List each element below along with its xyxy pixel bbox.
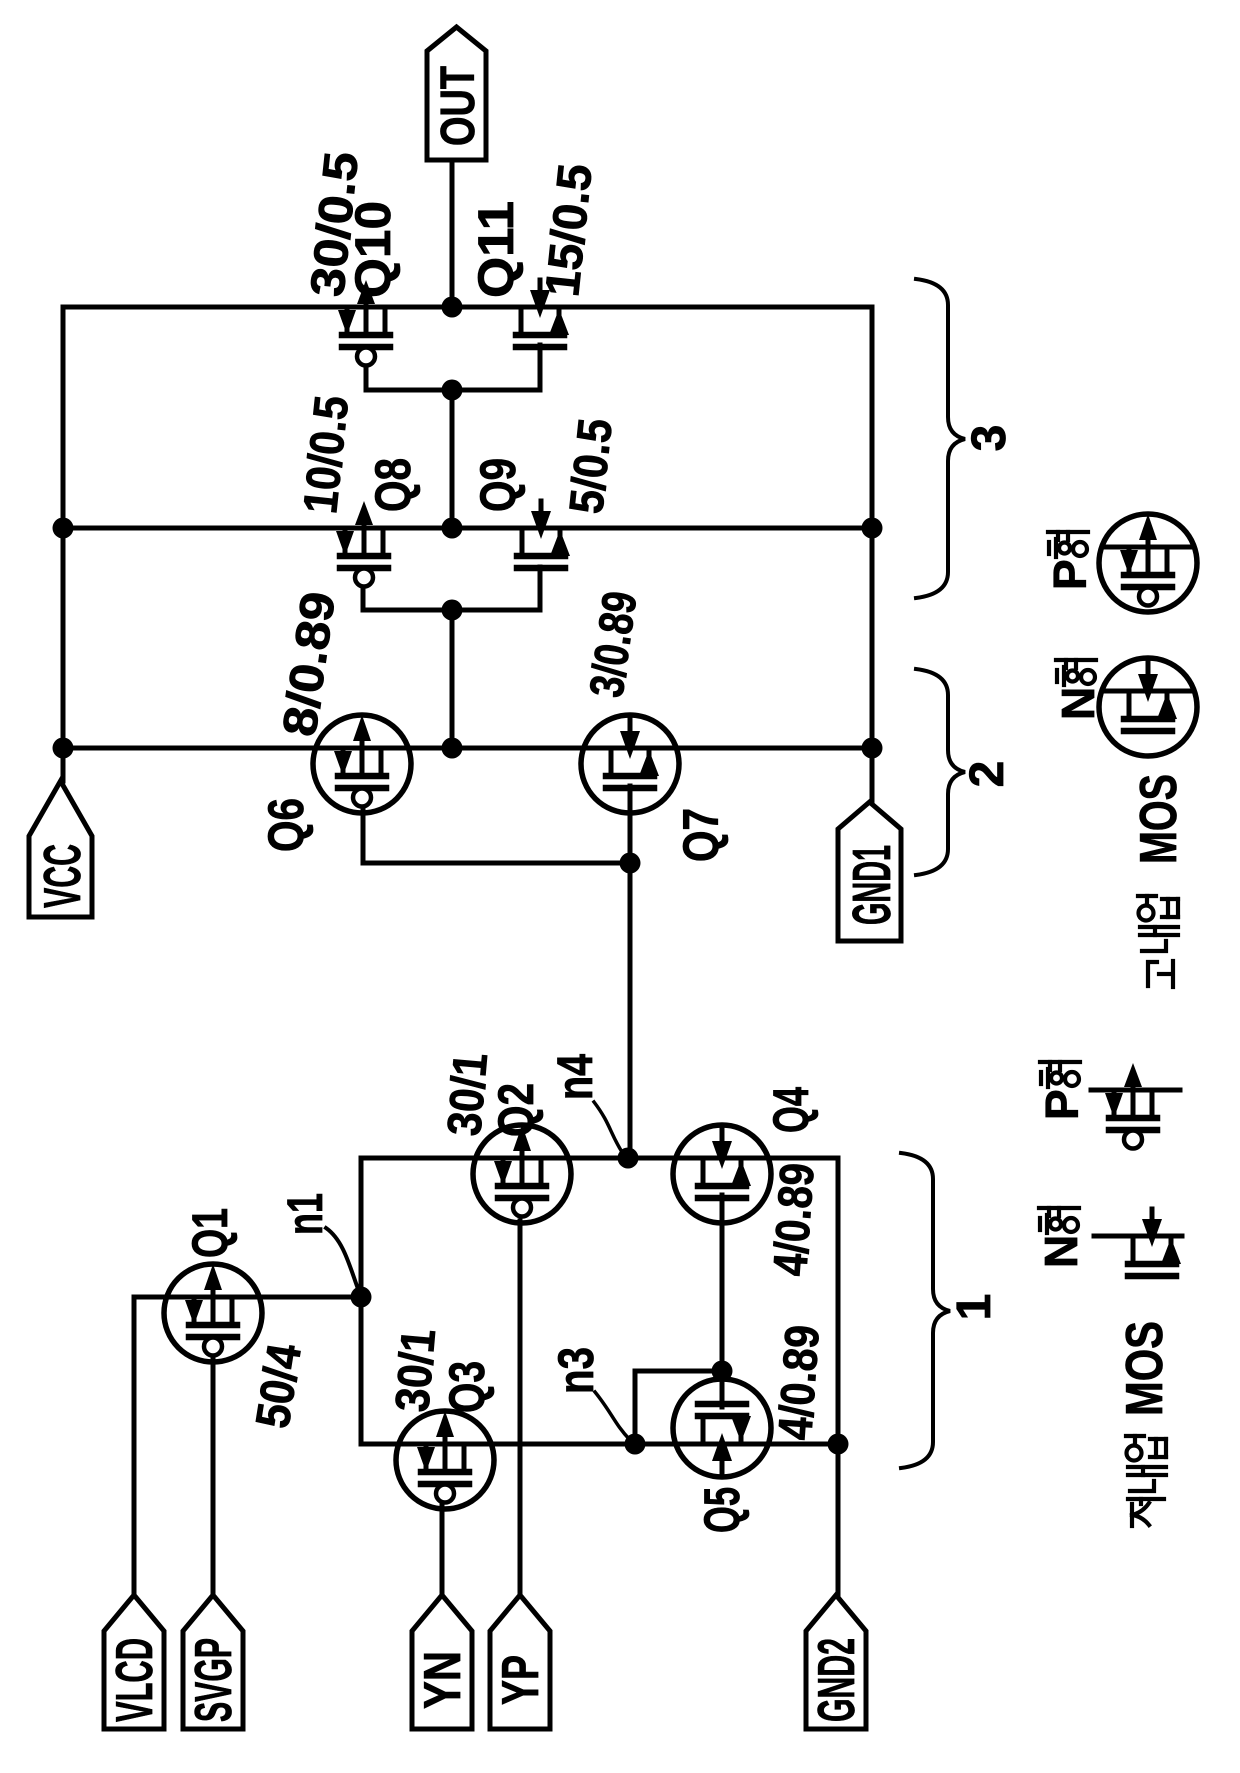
brace section 2 [916, 669, 1014, 875]
svg-text:n4: n4 [547, 1054, 603, 1100]
terminal tag YP [490, 1595, 550, 1729]
svg-text:Q2: Q2 [488, 1083, 544, 1137]
svg-text:VCC: VCC [34, 844, 92, 908]
wire Q5 gate lead [720, 1371, 725, 1407]
junction dot GND2 / bottom rail [828, 1434, 849, 1455]
node label n4 with leader [547, 1054, 622, 1152]
svg-text:3: 3 [963, 425, 1016, 452]
wire node n3 to Q4/Q5 gate junction [635, 1371, 722, 1444]
legend high-voltage N-MOS symbol [1099, 658, 1197, 756]
junction dot GND1/Q9 column [862, 518, 883, 539]
junction dot VCC/Q8 column [53, 518, 74, 539]
svg-text:GND2: GND2 [808, 1638, 866, 1722]
wire YP to Q2 gate [518, 1221, 523, 1595]
svg-text:VLCD: VLCD [106, 1638, 164, 1722]
wire Q6/Q7 stage column [63, 746, 872, 751]
svg-text:YP: YP [492, 1655, 550, 1705]
legend low-voltage N-MOS symbol [1094, 1209, 1182, 1276]
brace section 3 [916, 279, 1016, 598]
svg-text:Q7: Q7 [673, 808, 729, 862]
wire GND2 lead [836, 1444, 841, 1595]
svg-text:Q6: Q6 [258, 798, 314, 852]
wire Q3/Q5 column [361, 1442, 838, 1447]
wire Q2/Q4 column [361, 1156, 838, 1161]
transistor Q7 (high-voltage N-MOS) [581, 715, 679, 813]
svg-text:GND1: GND1 [842, 845, 902, 925]
svg-text:5/0.5: 5/0.5 [560, 416, 623, 516]
wire Q6/Q7 drain node to Q8/Q9 gate bus [450, 610, 455, 748]
svg-text:YN: YN [414, 1651, 472, 1709]
transistor Q2 (high-voltage P-MOS) [473, 1125, 571, 1223]
legend high-voltage N-type label [1052, 660, 1104, 720]
junction dot Q10/Q11 gate bus [442, 380, 463, 401]
transistor Q11 (low-voltage N-MOS) [516, 280, 569, 347]
node n4 junction dot [618, 1148, 639, 1169]
legend low-voltage N-type label [1035, 1208, 1087, 1268]
node n1 junction dot [351, 1287, 372, 1308]
wire VLCD to Q1 source [132, 1297, 137, 1595]
node label n1 with leader [277, 1193, 358, 1289]
svg-text:MOS: MOS [1130, 774, 1188, 864]
svg-text:30/1: 30/1 [386, 1327, 446, 1414]
terminal tag OUT [427, 27, 486, 160]
wire Q11 gate lead [538, 345, 543, 390]
transistor Q3 (high-voltage P-MOS) [396, 1411, 494, 1509]
svg-text:Q10: Q10 [345, 201, 401, 298]
wire GND1 rail [870, 307, 875, 802]
junction dot GND1/Q7 column [862, 738, 883, 759]
wire Q8/Q9 gate bus [363, 608, 540, 613]
wire Q4 gate lead [720, 1195, 725, 1371]
junction dot Q10/Q11 drain node (OUT) [442, 297, 463, 318]
svg-text:N: N [1035, 1235, 1087, 1268]
svg-text:Q8: Q8 [365, 458, 421, 512]
wire Q8 gate lead [361, 585, 366, 610]
svg-text:Q9: Q9 [470, 458, 526, 512]
junction dot Q6/Q7 gate join [620, 853, 641, 874]
legend high-voltage MOS caption (go-nae-ap MOS) [1130, 774, 1188, 987]
terminal tag SVGP [183, 1595, 243, 1729]
svg-text:SVGP: SVGP [185, 1638, 243, 1722]
transistor Q8 (low-voltage P-MOS) [336, 501, 388, 587]
legend low-voltage P-type label [1036, 1062, 1088, 1120]
terminal tag GND2 [806, 1595, 866, 1729]
svg-text:OUT: OUT [432, 66, 485, 146]
legend high-voltage P-type label [1044, 532, 1096, 590]
wire Q9 gate lead [538, 567, 543, 610]
svg-text:Q5: Q5 [694, 1487, 750, 1533]
wire Q6 gate lead [363, 806, 630, 863]
svg-text:P: P [1044, 559, 1096, 590]
terminal tag YN [412, 1595, 472, 1729]
junction dot VCC/Q6 column [53, 738, 74, 759]
node label n3 with leader [548, 1347, 630, 1440]
transistor Q9 (low-voltage N-MOS) [517, 501, 570, 568]
node n3 junction dot [625, 1434, 646, 1455]
wire Q8/Q9 stage column [63, 526, 872, 531]
terminal tag GND1 [838, 802, 902, 941]
wire VCC rail [61, 307, 66, 781]
wire Q7 gate lead [628, 786, 633, 863]
wire YN to Q3 gate [440, 1502, 445, 1595]
svg-text:4/0.89: 4/0.89 [769, 1323, 830, 1441]
svg-text:N: N [1052, 687, 1104, 720]
svg-text:Q4: Q4 [763, 1087, 819, 1133]
wire node n1 branch [359, 1158, 364, 1444]
wire Q10/Q11 gate bus [366, 388, 540, 393]
svg-text:MOS: MOS [1116, 1321, 1174, 1416]
wire Q1 column to node n1 [134, 1295, 361, 1300]
svg-text:Q3: Q3 [439, 1361, 495, 1413]
svg-text:4/0.89: 4/0.89 [764, 1161, 825, 1277]
junction dot Q4/Q5 gate join [712, 1361, 733, 1382]
svg-text:Q11: Q11 [468, 201, 524, 298]
wire Q8/Q9 drain node to Q10/Q11 gate bus [450, 390, 455, 528]
svg-text:Q1: Q1 [182, 1208, 238, 1258]
legend low-voltage P-MOS symbol [1091, 1063, 1180, 1149]
junction dot Q8/Q9 gate bus [442, 600, 463, 621]
legend high-voltage P-MOS symbol [1099, 514, 1197, 612]
svg-text:P: P [1036, 1089, 1088, 1120]
svg-text:2: 2 [961, 761, 1014, 788]
wire node n4 to Q6/Q7 gates [628, 863, 633, 1158]
terminal tag VCC [29, 781, 92, 917]
wire Q10 gate lead [364, 364, 369, 390]
terminal tag VLCD [104, 1595, 164, 1729]
legend low-voltage MOS caption (jeo-nae-ap MOS) [1116, 1321, 1174, 1526]
svg-text:n3: n3 [548, 1347, 604, 1394]
wire OUT lead [450, 160, 455, 307]
transistor Q4 (high-voltage N-MOS) [673, 1125, 771, 1223]
wire Q10/Q11 output-stage column VCC to GND1 [63, 305, 872, 310]
brace section 1 [901, 1153, 1001, 1468]
wire stage-1 bottom rail [836, 1158, 841, 1444]
transistor Q6 (high-voltage P-MOS) [313, 715, 411, 813]
svg-text:1: 1 [948, 1294, 1001, 1321]
transistor Q5 (high-voltage N-MOS, mirrored) [673, 1379, 771, 1477]
junction dot Q8/Q9 drain node [442, 518, 463, 539]
junction dot Q6/Q7 drain node [442, 738, 463, 759]
transistor Q10 (low-voltage P-MOS) [338, 280, 390, 366]
transistor Q1 (high-voltage P-MOS) [164, 1264, 262, 1362]
wire SVGP to Q1 gate [211, 1357, 216, 1595]
